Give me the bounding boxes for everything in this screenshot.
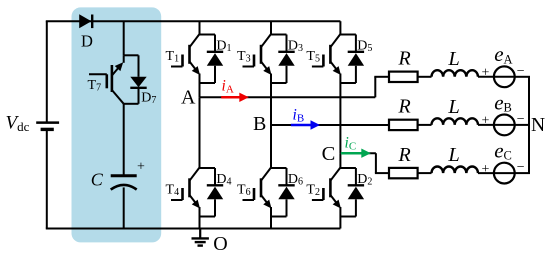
- current arrow iC: [341, 152, 363, 155]
- wire leg T3 to node B: [270, 83, 272, 125]
- transistor T4 (IGBT): [190, 168, 200, 181]
- svg-text:D: D: [81, 31, 93, 50]
- svg-text:T5: T5: [306, 49, 320, 65]
- svg-text:+: +: [482, 66, 490, 81]
- svg-text:eC: eC: [494, 139, 512, 163]
- wire phase C to R: [375, 172, 389, 174]
- wire source to N bus (phase C): [515, 172, 530, 174]
- svg-text:C: C: [322, 143, 336, 165]
- svg-text:D6: D6: [288, 172, 303, 188]
- svg-text:D2: D2: [357, 172, 372, 188]
- transistor T5 (IGBT): [330, 34, 340, 47]
- svg-text:B: B: [253, 113, 266, 135]
- svg-text:eB: eB: [494, 90, 512, 114]
- svg-text:T1: T1: [166, 49, 180, 65]
- wire L to source (phase B): [478, 124, 515, 126]
- inductor L (phase B): [432, 118, 478, 125]
- capacitor C: [111, 174, 137, 177]
- svg-text:D5: D5: [357, 39, 372, 55]
- wire phase B: [271, 124, 389, 126]
- wire leg node C to T2: [339, 153, 341, 168]
- svg-text:eA: eA: [494, 42, 512, 66]
- wire left vertical (Vdc -): [46, 129, 48, 228]
- wire R to L (phase C): [418, 172, 432, 174]
- svg-text:Vdc: Vdc: [6, 112, 30, 134]
- wire leg T2 to bottom rail: [339, 217, 341, 229]
- svg-text:T6: T6: [237, 183, 251, 199]
- wire phase A to R: [374, 76, 389, 78]
- wire phase A jog up: [374, 77, 376, 98]
- inductor L (phase A): [432, 70, 478, 77]
- wire leg T1 from top rail: [199, 21, 201, 34]
- svg-text:T2: T2: [306, 183, 320, 199]
- wire L to source (phase A): [478, 76, 515, 78]
- current arrow iB: [291, 124, 312, 127]
- wire T7 branch from top rail: [123, 21, 125, 55]
- svg-text:D4: D4: [216, 172, 231, 188]
- svg-text:L: L: [447, 48, 459, 70]
- diode D: [79, 14, 91, 28]
- svg-text:O: O: [213, 233, 227, 255]
- wire phase A: [200, 96, 376, 98]
- svg-text:+: +: [137, 160, 145, 175]
- current arrow iA: [221, 96, 241, 99]
- svg-text:iA: iA: [222, 78, 234, 96]
- transistor T7 with diode D7: [124, 54, 139, 56]
- wire leg T5 to node C: [339, 83, 341, 153]
- wire phase C: [340, 152, 376, 154]
- wire capacitor to bottom rail: [123, 187, 125, 228]
- wire L to source (phase C): [478, 172, 515, 174]
- svg-text:L: L: [447, 144, 459, 166]
- wire leg T3 from top rail: [270, 21, 272, 34]
- transistor T3 (IGBT): [261, 34, 271, 47]
- svg-text:R: R: [398, 48, 411, 70]
- battery Vdc: [36, 121, 59, 124]
- svg-text:iB: iB: [293, 106, 305, 124]
- svg-text:iC: iC: [345, 135, 357, 153]
- wire leg node B to T6: [270, 125, 272, 168]
- svg-text:N: N: [531, 115, 545, 136]
- wire phase C jog down: [375, 153, 377, 173]
- source eA: [494, 66, 515, 87]
- wire source to N bus (phase A): [515, 76, 530, 78]
- wire R to L (phase A): [418, 76, 432, 78]
- svg-text:C: C: [91, 169, 104, 189]
- wire bottom DC rail: [46, 228, 341, 230]
- transistor T2 (IGBT): [330, 168, 340, 181]
- wire T7 to capacitor: [123, 104, 125, 175]
- resistor R (phase B): [389, 120, 418, 130]
- wire left vertical (Vdc +): [46, 21, 48, 122]
- source eC: [494, 163, 515, 184]
- wire leg T4 to bottom rail: [199, 217, 201, 229]
- resistor R (phase A): [389, 72, 418, 82]
- inductor L (phase C): [432, 167, 478, 174]
- wire top DC rail: [46, 20, 341, 22]
- ground O: [199, 229, 201, 239]
- wire leg node A to T4: [199, 97, 201, 168]
- wire leg T6 to bottom rail: [270, 217, 272, 229]
- svg-text:D3: D3: [288, 39, 303, 55]
- wire leg T5 from top rail: [339, 21, 341, 34]
- transistor T1 (IGBT): [190, 34, 200, 47]
- svg-text:+: +: [482, 114, 490, 129]
- wire N bus: [528, 77, 530, 173]
- svg-text:A: A: [181, 87, 196, 109]
- source eB: [494, 115, 515, 136]
- svg-text:+: +: [482, 162, 490, 177]
- svg-text:D1: D1: [216, 39, 231, 55]
- svg-text:T3: T3: [237, 49, 251, 65]
- resistor R (phase C): [389, 168, 418, 178]
- svg-text:R: R: [398, 96, 411, 118]
- svg-text:R: R: [398, 144, 411, 166]
- wire leg T1 to node A: [199, 83, 201, 97]
- transistor T6 (IGBT): [261, 168, 271, 181]
- wire source to N bus (phase B): [515, 124, 530, 126]
- svg-text:L: L: [447, 96, 459, 118]
- wire R to L (phase B): [418, 124, 432, 126]
- highlight region (chopper cell): [72, 7, 162, 242]
- svg-text:T4: T4: [166, 183, 180, 199]
